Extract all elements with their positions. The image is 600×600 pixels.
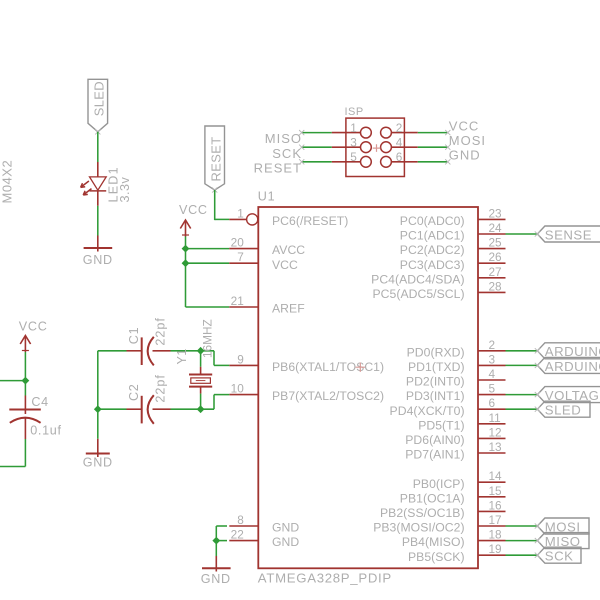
svg-text:VCC: VCC <box>19 320 48 334</box>
connector J1 M04X2 label <box>0 160 15 204</box>
junction (VCC/VCC) <box>182 260 188 266</box>
pin 18 PB4(MISO) <box>402 528 506 550</box>
wire net VCC from ISP <box>418 130 451 135</box>
pin 8 GND <box>229 513 299 535</box>
net label RESET <box>254 160 302 175</box>
capacitor C1 22pf <box>127 317 171 365</box>
net flag SENSE <box>535 226 600 242</box>
svg-text:3: 3 <box>350 136 357 150</box>
ground symbol GND (U1) <box>201 556 231 586</box>
svg-text:10: 10 <box>231 382 245 396</box>
svg-text:16: 16 <box>489 498 503 512</box>
wire net SCK <box>506 554 538 556</box>
svg-text:25: 25 <box>489 236 503 250</box>
svg-text:8: 8 <box>237 513 244 527</box>
power symbol VCC (C4) <box>19 320 48 352</box>
svg-text:6: 6 <box>396 150 403 164</box>
svg-text:PC6(/RESET): PC6(/RESET) <box>272 214 348 228</box>
svg-text:22pf: 22pf <box>154 317 168 346</box>
svg-text:PD5(T1): PD5(T1) <box>418 418 464 432</box>
svg-text:GND: GND <box>272 521 299 535</box>
pin 15 PB1(OC1A) <box>400 484 506 506</box>
wire rail to GND <box>97 409 99 439</box>
svg-text:14: 14 <box>489 469 503 483</box>
svg-text:U1: U1 <box>258 190 276 204</box>
svg-text:PD3(INT1): PD3(INT1) <box>406 389 465 403</box>
net label MISO <box>265 131 302 146</box>
svg-text:PB7(XTAL2/TOSC2): PB7(XTAL2/TOSC2) <box>272 389 384 403</box>
svg-text:26: 26 <box>489 250 503 264</box>
IC U1 ATMEGA328P_PDIP body <box>258 190 478 586</box>
svg-text:13: 13 <box>489 440 503 454</box>
svg-text:9: 9 <box>237 352 244 366</box>
junction (GND pins) <box>213 537 219 543</box>
svg-text:22pf: 22pf <box>154 374 168 403</box>
svg-text:VCC: VCC <box>179 203 208 217</box>
capacitor C2 22pf <box>127 374 171 424</box>
ground symbol GND (crystal caps) <box>83 439 113 470</box>
svg-text:GND: GND <box>449 148 481 163</box>
wire net MOSI <box>506 525 538 527</box>
net label VCC <box>449 118 479 133</box>
svg-text:12: 12 <box>489 425 502 439</box>
svg-text:7: 7 <box>237 250 244 264</box>
svg-text:21: 21 <box>231 294 244 308</box>
svg-text:28: 28 <box>489 279 503 293</box>
pin 14 PB0(ICP) <box>413 469 506 491</box>
net flag SLED (top) <box>88 79 108 134</box>
svg-text:MISO: MISO <box>265 131 302 146</box>
svg-text:3: 3 <box>489 352 496 366</box>
wire VCC to C4 <box>24 352 26 396</box>
ground symbol GND (LED) <box>83 236 113 268</box>
svg-text:PB0(ICP): PB0(ICP) <box>413 477 465 491</box>
crystal Y1 16MHZ <box>175 319 214 409</box>
svg-text:27: 27 <box>489 265 502 279</box>
net flag SCK <box>535 547 581 563</box>
svg-text:MOSI: MOSI <box>449 133 486 148</box>
svg-text:VCC: VCC <box>449 118 479 133</box>
wire LED1 cathode to GND <box>97 206 99 236</box>
svg-text:18: 18 <box>489 528 503 542</box>
svg-text:ARDUINO_TX: ARDUINO_TX <box>545 359 600 374</box>
net flag RESET <box>205 126 225 193</box>
svg-text:2: 2 <box>396 121 403 135</box>
pin 24 PC1(ADC1) <box>400 221 506 243</box>
svg-text:5: 5 <box>350 150 357 164</box>
svg-text:15: 15 <box>489 484 503 498</box>
U1 origin cross <box>356 363 365 372</box>
svg-text:SENSE: SENSE <box>545 227 592 242</box>
net label MOSI <box>449 133 486 148</box>
svg-text:PD0(RXD): PD0(RXD) <box>407 345 465 359</box>
svg-text:PB5(SCK): PB5(SCK) <box>408 550 465 564</box>
svg-text:20: 20 <box>231 236 245 250</box>
svg-text:ISP: ISP <box>345 106 364 118</box>
pin 28 PC5(ADC5/SCL) <box>373 279 506 301</box>
pin 3 PD1(TXD) <box>408 352 506 374</box>
svg-text:PB1(OC1A): PB1(OC1A) <box>400 491 465 505</box>
wire net RESET to ISP <box>299 159 332 164</box>
svg-text:22: 22 <box>231 528 244 542</box>
pin 17 PB3(MOSI/OC2) <box>373 513 505 535</box>
pin 9 PB6(XTAL1/TOSC1) <box>229 352 384 374</box>
svg-text:PB3(MOSI/OC2): PB3(MOSI/OC2) <box>373 521 464 535</box>
pin 21 AREF <box>229 294 304 316</box>
svg-text:PC1(ADC1): PC1(ADC1) <box>400 229 465 243</box>
svg-text:PB6(XTAL1/TOSC1): PB6(XTAL1/TOSC1) <box>272 360 384 374</box>
wire net MISO to ISP <box>299 130 332 135</box>
svg-text:GND: GND <box>272 535 299 549</box>
junction (VCC/AVCC) <box>182 245 188 251</box>
pin 20 AVCC <box>229 236 305 258</box>
svg-text:1: 1 <box>350 121 357 135</box>
pin 23 PC0(ADC0) <box>400 206 506 228</box>
wire net SENSE <box>506 233 538 235</box>
svg-text:PD4(XCK/T0): PD4(XCK/T0) <box>390 404 465 418</box>
connector ISP header <box>332 106 418 176</box>
wire net ARDUINO_RX <box>506 350 538 352</box>
net flag MISO <box>535 533 589 549</box>
svg-text:C1: C1 <box>127 327 141 345</box>
svg-text:2: 2 <box>489 338 496 352</box>
svg-text:VCC: VCC <box>272 258 298 272</box>
wire XTAL1 net (C1 row) <box>98 351 230 366</box>
wire GND net to pins 8/22 <box>216 526 227 541</box>
svg-text:PD1(TXD): PD1(TXD) <box>408 360 465 374</box>
wire C4 to lower connector net <box>24 439 26 467</box>
svg-text:RESET: RESET <box>209 137 224 182</box>
junction (C2/Y1/XTAL2) <box>197 406 203 412</box>
svg-text:PC2(ADC2): PC2(ADC2) <box>400 243 465 257</box>
wire net MOSI from ISP <box>418 145 451 150</box>
svg-text:24: 24 <box>489 221 503 235</box>
svg-text:PD6(AIN0): PD6(AIN0) <box>405 433 464 447</box>
pin 10 PB7(XTAL2/TOSC2) <box>229 382 384 404</box>
wire net SLED <box>506 408 538 410</box>
pin 25 PC2(ADC2) <box>400 236 506 258</box>
svg-text:ATMEGA328P_PDIP: ATMEGA328P_PDIP <box>258 571 392 586</box>
svg-text:AVCC: AVCC <box>272 243 305 257</box>
svg-text:PC5(ADC5/SCL): PC5(ADC5/SCL) <box>373 287 465 301</box>
svg-text:PD7(AIN1): PD7(AIN1) <box>405 448 464 462</box>
svg-text:M04X2: M04X2 <box>0 160 15 204</box>
pin 6 PD4(XCK/T0) <box>390 396 506 418</box>
pin 5 PD3(INT1) <box>406 382 506 404</box>
svg-text:Y1: Y1 <box>175 348 189 364</box>
svg-text:6: 6 <box>489 396 496 410</box>
svg-text:11: 11 <box>489 411 501 425</box>
wire net GND to connector (lower) <box>0 466 25 468</box>
power symbol VCC (U1) <box>179 203 208 237</box>
svg-text:PB4(MISO): PB4(MISO) <box>402 535 465 549</box>
net flag SLED <box>535 401 590 417</box>
pin 26 PC3(ADC3) <box>400 250 506 272</box>
svg-text:23: 23 <box>489 206 503 220</box>
LED LED1 3.3v <box>81 162 132 206</box>
pin 4 PD2(INT0) <box>406 367 506 389</box>
wire XTAL2 net (C2 row) <box>98 395 230 410</box>
svg-text:PC3(ADC3): PC3(ADC3) <box>400 258 465 272</box>
junction (left rail / GND) <box>95 406 101 412</box>
wire net VOLTAGE <box>506 394 538 396</box>
wire VCC rail to AVCC/VCC/AREF <box>186 237 230 308</box>
svg-text:0.1uf: 0.1uf <box>30 423 62 437</box>
svg-text:5: 5 <box>489 382 496 396</box>
junction (VCC/C4/connector) <box>22 377 28 383</box>
svg-text:PC0(ADC0): PC0(ADC0) <box>400 214 465 228</box>
pin 1 PC6(/RESET) with bubble <box>229 206 348 228</box>
wire junction to GND symbol <box>215 541 217 556</box>
svg-text:16MHZ: 16MHZ <box>200 319 214 358</box>
net flag ARDUINO_RX <box>535 343 600 359</box>
wire C1-C2 left rail <box>97 351 99 409</box>
svg-text:PB2(SS/OC1B): PB2(SS/OC1B) <box>380 506 465 520</box>
pin 13 PD7(AIN1) <box>405 440 505 462</box>
svg-text:AREF: AREF <box>272 302 305 316</box>
wire net N$1 to connector (upper) <box>0 380 25 382</box>
net flag ARDUINO_TX <box>535 357 600 373</box>
wire RESET to pin 1 <box>215 190 230 220</box>
svg-text:19: 19 <box>489 542 502 556</box>
svg-text:1: 1 <box>237 206 244 220</box>
svg-text:SLED: SLED <box>545 403 581 418</box>
svg-text:PC4(ADC4/SDA): PC4(ADC4/SDA) <box>371 272 464 286</box>
svg-text:SCK: SCK <box>272 146 302 161</box>
net flag MOSI <box>535 518 589 534</box>
svg-text:RESET: RESET <box>254 160 302 175</box>
svg-text:GND: GND <box>83 456 113 470</box>
wire net GND from ISP <box>418 159 451 164</box>
junction (C1/Y1/XTAL1) <box>197 348 203 354</box>
pin 19 PB5(SCK) <box>408 542 506 564</box>
pin 12 PD6(AIN0) <box>405 425 505 447</box>
svg-text:C2: C2 <box>127 384 141 402</box>
pin 22 GND <box>229 528 299 550</box>
pin 16 PB2(SS/OC1B) <box>380 498 505 520</box>
svg-text:PD2(INT0): PD2(INT0) <box>406 375 465 389</box>
svg-text:4: 4 <box>489 367 496 381</box>
svg-text:GND: GND <box>201 572 231 586</box>
wire net SCK to ISP <box>299 145 332 150</box>
svg-text:C4: C4 <box>31 395 49 409</box>
capacitor C4 0.1uf <box>9 395 61 439</box>
net label SCK <box>272 146 302 161</box>
pin 27 PC4(ADC4/SDA) <box>371 265 505 287</box>
pin 11 PD5(T1) <box>418 411 505 433</box>
net flag VOLTAGE <box>535 387 600 403</box>
wire net MISO <box>506 540 538 542</box>
pin 2 PD0(RXD) <box>407 338 506 360</box>
wire SLED net to LED1 anode <box>97 132 99 162</box>
net label GND <box>449 148 481 163</box>
svg-text:GND: GND <box>83 253 113 267</box>
svg-text:17: 17 <box>489 513 502 527</box>
wire net ARDUINO_TX <box>506 364 538 366</box>
svg-text:4: 4 <box>396 136 403 150</box>
svg-text:SCK: SCK <box>545 549 574 564</box>
svg-text:3.3v: 3.3v <box>118 176 132 202</box>
svg-text:SLED: SLED <box>92 81 107 116</box>
pin 7 VCC <box>229 250 298 272</box>
